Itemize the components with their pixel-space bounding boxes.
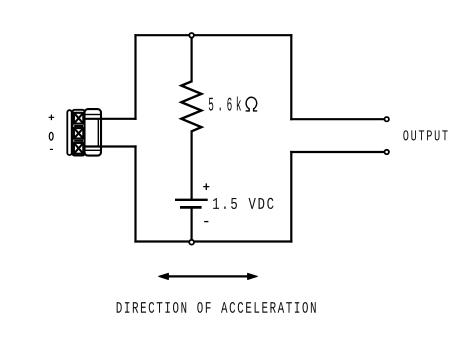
wire resistor to battery xyxy=(191,131,193,198)
battery BT1 minus sign xyxy=(204,221,208,223)
output terminal bottom xyxy=(385,150,389,154)
output terminal top xyxy=(385,117,389,121)
wire bottom rail xyxy=(136,240,292,242)
transducer XDC1 zero label xyxy=(49,132,53,140)
node junction bottom (battery branch / bottom rail) xyxy=(189,240,194,245)
wire left vertical lower segment xyxy=(134,147,136,242)
wire right vertical lower segment xyxy=(290,152,292,242)
wire top output lead xyxy=(291,118,383,120)
transducer XDC1 crystal element 3 xyxy=(74,143,83,154)
battery BT1 long positive plate xyxy=(175,199,208,201)
transducer XDC1 shell top rim line xyxy=(85,114,101,116)
wire transducer bottom lead xyxy=(85,145,136,147)
transducer XDC1 crystal element 1 xyxy=(74,113,83,124)
transducer XDC1 crystal stack housing xyxy=(73,110,85,156)
transducer XDC1 plus polarity label xyxy=(49,115,55,121)
transducer XDC1 crystal element 2 xyxy=(74,128,83,138)
battery BT1 short negative plate xyxy=(180,206,202,209)
resistor R1 value label ohm symbol xyxy=(246,97,258,111)
resistor R1 value label 5.6k xyxy=(209,97,241,111)
direction of acceleration arrow shaft xyxy=(166,275,250,277)
transducer XDC1 shell bottom rim line xyxy=(85,149,101,151)
battery BT1 value label 1.5 VDC xyxy=(213,198,273,209)
wire top rail xyxy=(136,34,292,36)
transducer XDC1 minus polarity label xyxy=(50,148,53,150)
wire right vertical upper segment xyxy=(290,35,292,119)
wire transducer top lead xyxy=(85,118,136,120)
wire resistor branch top xyxy=(191,35,193,81)
OUTPUT net label xyxy=(403,130,447,140)
battery BT1 plus sign xyxy=(203,183,209,190)
direction arrow right head xyxy=(248,273,258,279)
wire battery to bottom rail xyxy=(191,207,193,241)
transducer XDC1 left end cap bar xyxy=(67,110,71,155)
transducer XDC1 inner mass vertical line xyxy=(97,119,99,147)
direction arrow left head xyxy=(159,273,169,279)
resistor R1 zigzag xyxy=(181,81,201,131)
transducer XDC1 separator bar 2 xyxy=(74,140,83,142)
caption DIRECTION OF ACCELERATION xyxy=(117,302,316,313)
transducer XDC1 separator bar 1 xyxy=(74,125,83,127)
wire left vertical upper segment xyxy=(134,35,136,119)
wire bottom output lead xyxy=(291,151,383,153)
node junction top (resistor branch / top rail) xyxy=(189,33,194,38)
transducer XDC1 body shell xyxy=(85,109,102,156)
